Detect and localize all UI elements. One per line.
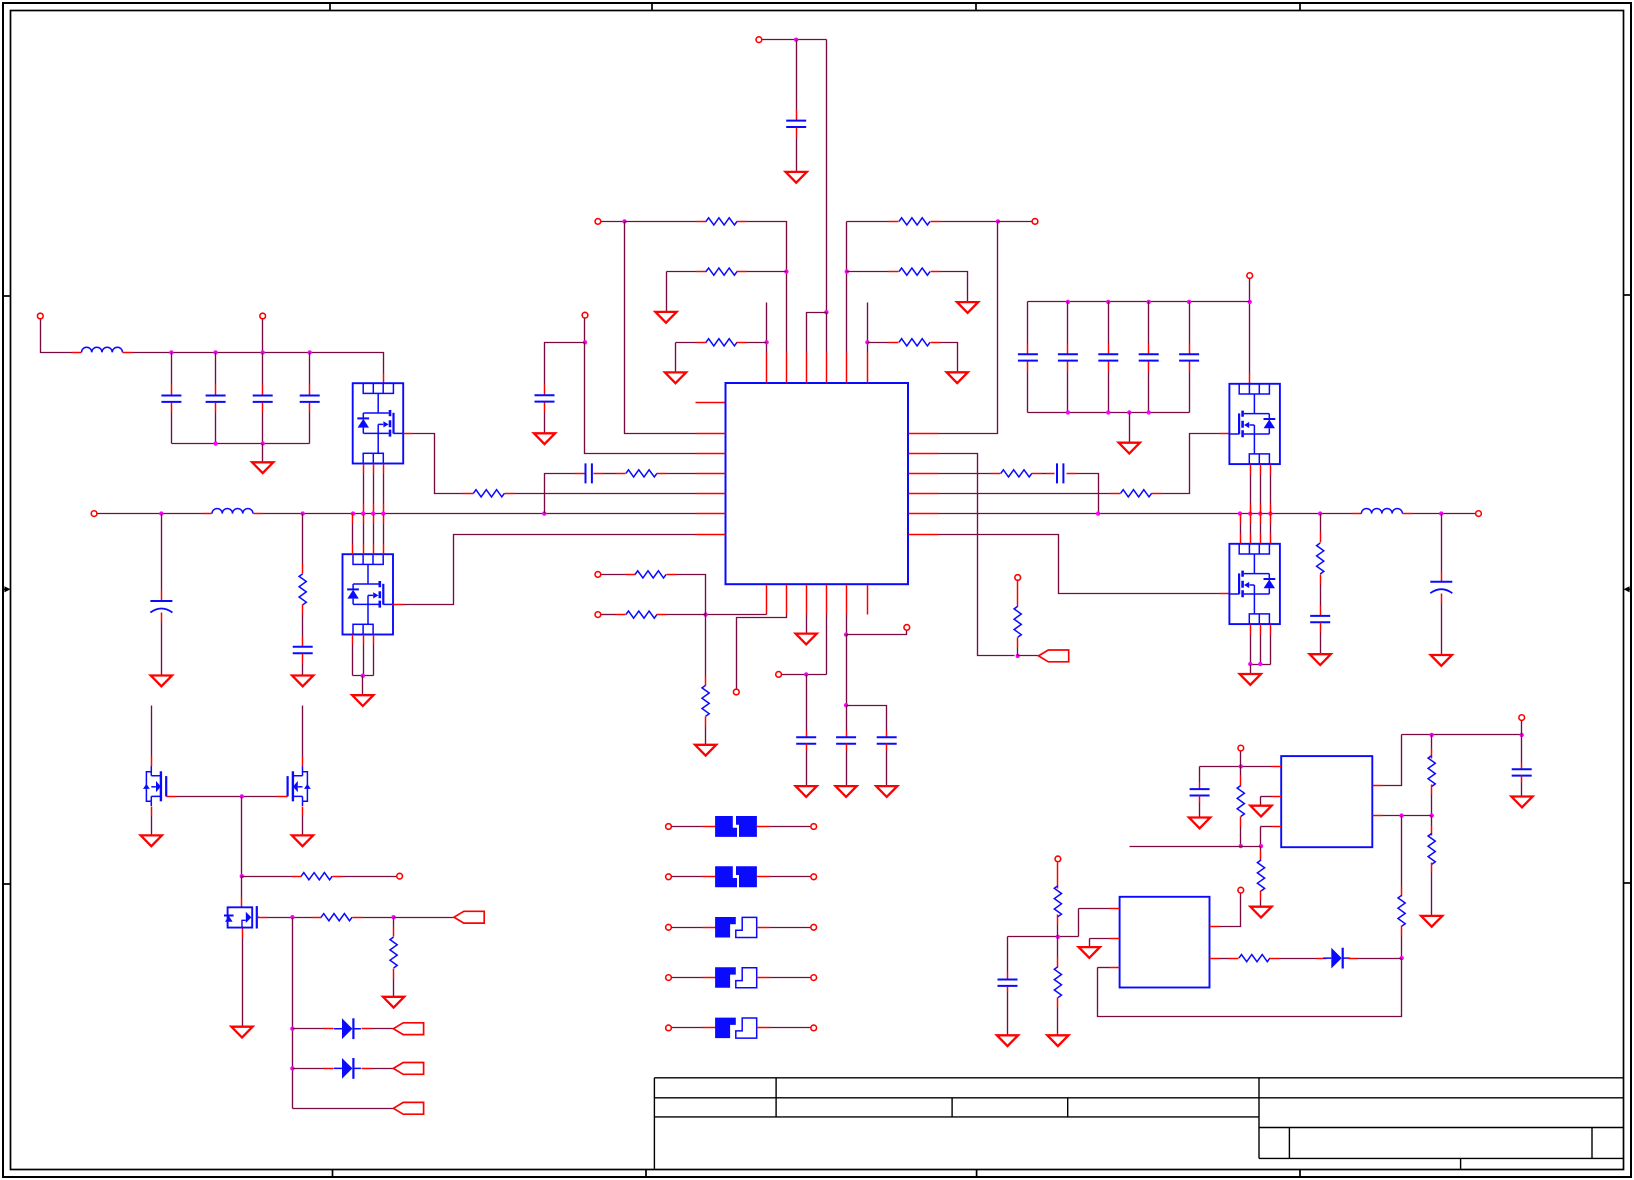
pin Q5 gate bbox=[167, 796, 177, 798]
wire VDD jog to pin bbox=[807, 313, 827, 353]
port SWOUT-R bbox=[1476, 511, 1482, 517]
wire cap C1 top bbox=[171, 353, 173, 385]
node AUX tag bbox=[393, 1102, 423, 1114]
pin U2 in bbox=[1272, 766, 1282, 768]
pin R-u3a top bbox=[1057, 863, 1059, 889]
wire C-vreg2 branch bbox=[847, 706, 887, 731]
node CTRL tag bbox=[454, 911, 484, 923]
junction diode row 1 bbox=[290, 1027, 294, 1031]
pin J3 left bbox=[703, 927, 716, 929]
capacitor C-snub-R bbox=[1310, 616, 1330, 622]
junction SW bus right 4 bbox=[1258, 511, 1262, 515]
port SWOUT-L bbox=[91, 511, 97, 517]
wire VIN-B stub bbox=[262, 320, 264, 353]
wire cap C1 bottom bbox=[171, 413, 173, 444]
port U3-OUT bbox=[1238, 887, 1244, 893]
resistor R-pull bbox=[301, 873, 332, 880]
resistor R-fb6 bbox=[899, 268, 930, 275]
junction cap bank right bottom 3 bbox=[1127, 410, 1131, 414]
pin Q2 drain 1 bbox=[352, 545, 354, 555]
wire cap CR1 bottom bbox=[1027, 372, 1029, 413]
wire U2 out net bbox=[1383, 735, 1402, 786]
pin U1 left y453.4 bbox=[696, 453, 726, 455]
pin R-mid bottom bbox=[1401, 926, 1403, 936]
port J2-left bbox=[666, 874, 672, 880]
pin R-fbd bottom bbox=[1431, 863, 1433, 873]
pin R-pull left bbox=[292, 876, 302, 878]
jumper J3 open bbox=[715, 917, 736, 938]
wire U2 gnd down bbox=[1260, 797, 1262, 806]
wire rt pin to port bbox=[737, 615, 787, 689]
pin U3 out1 bbox=[1210, 926, 1220, 928]
wire fb3 column bbox=[766, 303, 768, 353]
capacitor C-snub-L bbox=[293, 647, 313, 653]
pin Q6 source bbox=[302, 807, 304, 816]
pin diode D2 anode bbox=[324, 1068, 334, 1070]
pin R-compR right bbox=[1032, 473, 1042, 475]
port EN-B bbox=[582, 312, 588, 318]
pin inductor L1 left bbox=[72, 352, 82, 354]
wire C-out-R to ground bbox=[1441, 604, 1443, 655]
pin Q1 source 1 bus end bbox=[363, 504, 365, 514]
pin U1 right y534 bbox=[909, 534, 939, 536]
junction vreg caps bbox=[844, 703, 848, 707]
wire U3 out1 net bbox=[1220, 894, 1241, 927]
pin Q4 drain 3 bus end bbox=[1260, 514, 1262, 524]
ground R-u3b bbox=[1047, 1035, 1068, 1046]
border zone tick left 2 bbox=[2, 883, 11, 885]
junction Q7 gate net bbox=[290, 915, 294, 919]
wire U2 gnd stub bbox=[1261, 796, 1272, 798]
pin Q2 drain 2 bus end bbox=[363, 514, 365, 524]
jumper J2 closed bbox=[715, 866, 737, 887]
node LED1 tag bbox=[393, 1023, 423, 1035]
junction EN-C node bbox=[996, 219, 1000, 223]
wire R-fb3 to ground bbox=[675, 343, 677, 373]
capacitor C-en bbox=[535, 395, 555, 401]
pin Q3 source 1 bus end bbox=[1250, 504, 1252, 514]
ground R-ss3 bbox=[695, 745, 716, 756]
border zone tick top 1 bbox=[329, 2, 331, 11]
pin C-vdd bottom bbox=[796, 128, 798, 138]
pin R-pd bottom bbox=[393, 969, 395, 979]
resistor R-fb4 bbox=[899, 339, 930, 346]
pin Q2 source 1 bbox=[352, 635, 354, 645]
capacitor C-vreg1 bbox=[836, 737, 856, 743]
pin C-ldoin bottom bbox=[1199, 796, 1201, 803]
inductor L3 bbox=[1361, 508, 1402, 513]
wire Q6 source to ground bbox=[302, 816, 304, 836]
wire U3 mr net bbox=[1098, 967, 1110, 969]
pin cap CR5 bottom bbox=[1189, 362, 1191, 372]
ground C-vreg1 bbox=[836, 786, 857, 797]
capacitor C-out-L polarized bbox=[150, 600, 172, 602]
junction divider tag node bbox=[1016, 654, 1020, 658]
wire Q1 source 1 to SW bus bbox=[363, 474, 365, 504]
wire C-u3 top bbox=[1007, 937, 1009, 973]
pin Q2 drain 4 bbox=[383, 545, 385, 555]
junction VIN-R top bus 4 bbox=[1187, 300, 1191, 304]
wire cap bank right bottom bus bbox=[1028, 412, 1190, 414]
resistor R-u3b bbox=[1054, 967, 1061, 998]
pin U1 left y513.6 bbox=[696, 513, 726, 515]
capacitor CR4 bbox=[1139, 354, 1159, 360]
inductor L1 bbox=[82, 347, 123, 352]
wire U2 adj down bbox=[1260, 827, 1262, 847]
pin Q2 drain 4 bus end bbox=[383, 514, 385, 524]
wire Q1 gate to R gate bbox=[413, 434, 463, 494]
pin Q4 drain 2 bbox=[1250, 534, 1252, 544]
border zone tick left 1 bbox=[2, 295, 11, 297]
pin U1 left NC bbox=[696, 402, 726, 404]
wire J5 left bbox=[672, 1027, 703, 1029]
wire Q3 source 2 bbox=[1260, 475, 1262, 504]
junction SW bus right 1 bbox=[1096, 511, 1100, 515]
pin D3 cathode bbox=[1348, 958, 1358, 960]
pin cap CR2 top bbox=[1067, 344, 1069, 354]
pin C-vreg2 top bbox=[886, 731, 888, 738]
wire cap C3 top bbox=[262, 353, 264, 385]
op-amp U2 regulator IC body bbox=[1281, 756, 1372, 847]
wire J1 right bbox=[770, 826, 811, 828]
wire C-en to ground bbox=[544, 413, 546, 434]
ground U3 bbox=[1079, 947, 1100, 958]
wire cap bank to ground bbox=[262, 444, 264, 463]
wire cap CR3 bottom bbox=[1108, 372, 1110, 413]
resistor R-compR bbox=[1001, 470, 1032, 477]
pin Q4 source 3 bbox=[1270, 625, 1272, 635]
wire R-pull to port bbox=[343, 876, 397, 878]
pin U1 bottom x867.3 bbox=[867, 585, 869, 615]
wire C-vreg1 to ground bbox=[846, 751, 848, 787]
border zone tick bottom 1 bbox=[332, 1170, 334, 1179]
pin R-fb3 right bbox=[737, 342, 747, 344]
wire diode D2 to tag bbox=[372, 1068, 394, 1070]
wire cap bank right to ground bbox=[1129, 413, 1131, 443]
pin C-vcc top bbox=[806, 731, 808, 738]
pin U1 right y433.4 bbox=[909, 433, 939, 435]
ground snub-L bbox=[292, 676, 313, 687]
ground C-out-R bbox=[1431, 655, 1452, 666]
pin Q3 source 3 bbox=[1270, 465, 1272, 475]
pin Q3 source 3 bus end bbox=[1270, 504, 1272, 514]
wire gate pair net bbox=[177, 796, 277, 798]
node LED2 tag bbox=[393, 1063, 423, 1075]
pin R-fb1 right bbox=[737, 221, 747, 223]
ground C-out-L bbox=[151, 676, 172, 687]
wire SS-A lead bbox=[602, 574, 626, 576]
junction VIN bus cap C3 bbox=[261, 350, 265, 354]
pin R-u3b top bbox=[1057, 958, 1059, 968]
junction SW bus right 5 bbox=[1268, 511, 1272, 515]
pin R-pd top bbox=[393, 927, 395, 937]
pin U1 top x826.4 bbox=[826, 353, 828, 383]
port SS-A bbox=[595, 572, 601, 578]
wire Q2 gate to IC bbox=[404, 535, 696, 605]
pin inductor L3 left bbox=[1352, 513, 1362, 515]
pin U1 top x806.5 bbox=[806, 353, 808, 383]
wire R-fb2 to ground bbox=[666, 272, 668, 312]
resistor R-d bbox=[1239, 955, 1270, 962]
pin R-fb6 right bbox=[931, 271, 941, 273]
pin R-en bottom bbox=[1240, 817, 1242, 827]
junction SW bus right 2 bbox=[1238, 511, 1242, 515]
ground U1 agnd bbox=[796, 634, 817, 645]
wire R-mid to node bbox=[1401, 936, 1403, 959]
pin Q3 drain bbox=[1249, 374, 1251, 384]
junction vcc cap node bbox=[804, 672, 808, 676]
pin C-vcc bottom bbox=[806, 744, 808, 751]
ground C-vdd bbox=[786, 172, 807, 183]
wire R-fbu top bbox=[1431, 735, 1433, 749]
transistor Q1 high-side left bbox=[353, 383, 404, 463]
resistor R-fbu bbox=[1428, 756, 1435, 787]
wire Q4 drain 1 bbox=[1240, 524, 1242, 534]
wire U3 mr loop bbox=[1098, 959, 1402, 1017]
wire R-u3a to node bbox=[1057, 925, 1059, 937]
port VIN-A bbox=[37, 313, 43, 319]
wire C-u3 to ground bbox=[1007, 993, 1009, 1036]
capacitor CR2 bbox=[1058, 354, 1078, 360]
pin U2 out bbox=[1373, 785, 1383, 787]
wire Q2 source 1 bbox=[352, 645, 354, 676]
junction EN-A node bbox=[622, 219, 626, 223]
wire R-en to node bbox=[1240, 827, 1242, 847]
wire R-fbd top bbox=[1431, 816, 1433, 826]
wire R-fb4 to ground bbox=[941, 343, 958, 373]
pin cap CR4 bottom bbox=[1148, 362, 1150, 372]
junction U2 in node bbox=[1239, 764, 1243, 768]
wire VIN-A to inductor bbox=[41, 320, 72, 353]
pin U1 right y453.4 bbox=[909, 453, 939, 455]
wire Q4 source 3 bbox=[1270, 635, 1272, 665]
resistor R-gate3 bbox=[321, 914, 352, 921]
wire C-vreg1 top bbox=[846, 706, 848, 731]
pin J5 right bbox=[757, 1027, 770, 1029]
pin C-vdd top bbox=[796, 110, 798, 121]
pin J2 left bbox=[703, 876, 716, 878]
wire R-fb1 left lead bbox=[625, 221, 697, 223]
wire U3 gnd stub bbox=[1090, 938, 1110, 940]
wire ss node down bbox=[705, 615, 707, 676]
resistor R-mid bbox=[1398, 895, 1405, 926]
pin C-snub-L bottom bbox=[302, 654, 304, 664]
port SS-B bbox=[595, 612, 601, 618]
wire Q1 source 2 to SW bus bbox=[373, 474, 375, 504]
pin R-fb2 left bbox=[697, 271, 707, 273]
port VCC bbox=[776, 672, 782, 678]
pin R-gate2 right bbox=[1152, 493, 1162, 495]
pin R-gate1 right bbox=[505, 493, 515, 495]
jumper J1 closed bbox=[715, 816, 737, 837]
pin R-snub-L top bbox=[302, 564, 304, 574]
pin J3 right bbox=[757, 927, 770, 929]
pin Q3 source 2 bus end bbox=[1260, 504, 1262, 514]
port J4-right bbox=[811, 975, 817, 981]
junction VIN bus cap C4 bbox=[308, 350, 312, 354]
pin Q4 source 1 bbox=[1250, 625, 1252, 635]
junction LDO out 2 bbox=[1520, 733, 1524, 737]
pin cap C3 top bbox=[262, 385, 264, 395]
pin R-fb2 right bbox=[737, 271, 747, 273]
wire bottom tag row bbox=[293, 1108, 394, 1110]
wire Q7 source to ground bbox=[242, 938, 244, 1027]
pin R-ss1 right bbox=[667, 574, 677, 576]
wire J4 left bbox=[672, 977, 703, 979]
pin U1 bottom x806.2 bbox=[806, 585, 808, 615]
junction U3 vdd bus bbox=[1056, 935, 1060, 939]
pin inductor L1 right bbox=[123, 352, 133, 354]
ground cap bank bbox=[252, 462, 273, 473]
port EN-C bbox=[1032, 219, 1038, 225]
pin C-vreg1 top bbox=[846, 731, 848, 738]
junction VDD jog bbox=[824, 310, 828, 314]
wire diode D1 lead bbox=[293, 1028, 324, 1030]
wire EN-B down bbox=[584, 319, 586, 343]
wire Q7 drain bbox=[241, 877, 243, 898]
pin C-comp right bbox=[594, 473, 604, 475]
port VREG bbox=[904, 625, 910, 631]
port J3-right bbox=[811, 924, 817, 930]
transistor Q5 small left bbox=[143, 766, 167, 806]
wire cap CR2 bottom bbox=[1067, 372, 1069, 413]
pin C-out-L bottom bbox=[161, 613, 163, 623]
junction LDO out 1 bbox=[1430, 733, 1434, 737]
wire SW out right bbox=[1413, 513, 1476, 515]
pin R-fb4 left bbox=[889, 342, 899, 344]
port J3-left bbox=[666, 924, 672, 930]
junction fb3 column bbox=[764, 340, 768, 344]
wire cap CR3 top bbox=[1108, 302, 1110, 344]
port GDRV bbox=[397, 873, 403, 879]
wire R-fb6 lead bbox=[847, 271, 889, 273]
pin cap CR2 bottom bbox=[1067, 362, 1069, 372]
pin U1 left y493.3 bbox=[696, 493, 726, 495]
junction vreg node bbox=[844, 632, 848, 636]
wire gate drive right low bbox=[939, 535, 1220, 594]
wire R to C snub-L bbox=[302, 615, 304, 637]
capacitor C-vreg2 bbox=[877, 737, 897, 743]
border zone tick right 2 bbox=[1624, 882, 1633, 884]
wire cap CR2 top bbox=[1067, 302, 1069, 344]
wire R-u3b top bbox=[1057, 937, 1059, 958]
junction diode row 2 bbox=[290, 1066, 294, 1070]
pin cap CR5 top bbox=[1189, 344, 1191, 354]
wire R-fb4 lead bbox=[868, 342, 889, 344]
ground R-adj bbox=[1250, 907, 1271, 918]
wire EN-A column to IC bbox=[625, 222, 696, 434]
wire C-vdd top bbox=[796, 40, 798, 110]
wire U3 vdd bus bbox=[1008, 936, 1079, 938]
pin C-comp left bbox=[575, 473, 585, 475]
ground R-fb2 bbox=[655, 312, 676, 323]
wire R-u3b to ground bbox=[1057, 1008, 1059, 1036]
resistor R-adj bbox=[1257, 860, 1264, 891]
transistor Q2 low-side left bbox=[343, 554, 394, 634]
wire gate drive right high bbox=[939, 493, 1111, 495]
pin Q4 drain 1 bus end bbox=[1240, 514, 1242, 524]
pin Q4 drain 1 bbox=[1240, 534, 1242, 544]
wire R-adj top bbox=[1260, 847, 1262, 851]
pin C-vreg1 bottom bbox=[846, 744, 848, 751]
pin C-ldo bottom bbox=[1521, 776, 1523, 783]
pin C-en bottom bbox=[544, 403, 546, 413]
wire cap C3 bottom bbox=[262, 413, 264, 444]
junction VDD-top cap bbox=[794, 38, 798, 42]
wire fb5 column bbox=[846, 222, 848, 353]
pin R-d right bbox=[1270, 958, 1280, 960]
pin diode D1 anode bbox=[324, 1028, 334, 1030]
wire R-pd top bbox=[393, 918, 395, 927]
ground C-ldo bbox=[1511, 797, 1532, 808]
wire R-gate1 to IC pin bbox=[515, 493, 696, 495]
wire R-adj to ground bbox=[1260, 901, 1262, 907]
resistor R-u3a bbox=[1054, 886, 1061, 917]
wire VIN-R top bus bbox=[1028, 301, 1250, 303]
port U3-REF bbox=[1055, 856, 1061, 862]
junction SW bus 1 bbox=[159, 511, 163, 515]
pin R-gate2 left bbox=[1111, 493, 1121, 495]
node SENSE tag bbox=[1039, 650, 1069, 662]
resistor R-comp bbox=[626, 470, 657, 477]
wire Q4 source 2 bbox=[1260, 635, 1262, 665]
junction VIN-R top bus 3 bbox=[1147, 300, 1151, 304]
wire R-fb3 to column bbox=[747, 342, 767, 344]
pin C-compR right bbox=[1067, 473, 1077, 475]
pin U1 left y433.4 bbox=[696, 433, 726, 435]
wire C-out-L to ground bbox=[161, 623, 163, 676]
pin J2 right bbox=[757, 876, 770, 878]
wire vcc to port bbox=[782, 674, 827, 676]
junction SW bus 5 bbox=[371, 511, 375, 515]
ground cap bank right bbox=[1119, 443, 1140, 454]
ground Q4 source bbox=[1240, 674, 1261, 685]
pin C-ldoin top bbox=[1199, 783, 1201, 789]
pin C-u3 top bbox=[1007, 973, 1009, 980]
wire gate column bbox=[241, 797, 243, 877]
pin U1 left y534 bbox=[696, 534, 726, 536]
ground snub-R bbox=[1310, 654, 1331, 665]
resistor R-fb5 bbox=[899, 218, 930, 225]
wire RC snub-L top bbox=[302, 514, 304, 564]
wire R-compR to C-compR bbox=[1042, 473, 1047, 475]
pin U1 top x846.8 bbox=[846, 353, 848, 383]
pin cap C3 bottom bbox=[262, 403, 264, 413]
capacitor C-ldo bbox=[1512, 769, 1532, 775]
pin cap CR3 top bbox=[1108, 344, 1110, 354]
pin cap CR1 top bbox=[1027, 344, 1029, 354]
junction cap bank bottom 2 bbox=[261, 441, 265, 445]
wire SW bus left bbox=[98, 513, 203, 515]
wire diode D2 lead bbox=[293, 1068, 324, 1070]
capacitor C-vdd bbox=[786, 121, 806, 127]
port RT bbox=[733, 689, 739, 695]
wire C-snub-R to ground bbox=[1320, 633, 1322, 655]
wire C-comp to R-comp bbox=[604, 473, 616, 475]
wire Q2 source 2 bbox=[363, 645, 365, 676]
wire SS-B lead bbox=[602, 614, 616, 616]
wire R-pd to ground bbox=[393, 979, 395, 997]
pin U1 bottom x846.1 bbox=[846, 585, 848, 615]
wire vreg column bbox=[846, 635, 848, 706]
junction R-gate3 node bbox=[391, 915, 395, 919]
junction VIN-R bus bbox=[1248, 300, 1252, 304]
port LDO-OUT bbox=[1519, 715, 1525, 721]
wire R-gate3 to node bbox=[363, 917, 394, 919]
wire Q3 source 1 bbox=[1250, 475, 1252, 504]
wire VDD column bbox=[826, 40, 828, 313]
pin R-ss1 left bbox=[626, 574, 636, 576]
